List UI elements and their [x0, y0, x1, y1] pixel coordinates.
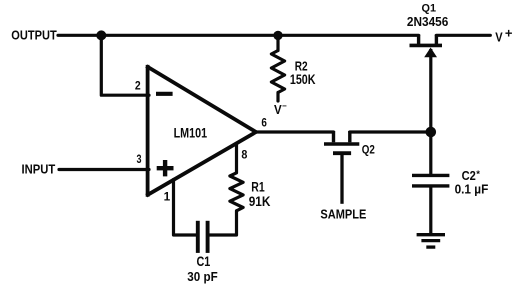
- svg-text:0.1 µF: 0.1 µF: [455, 183, 489, 197]
- resistor R1 zigzag: [230, 173, 243, 211]
- svg-text:3: 3: [137, 152, 142, 166]
- op-amp inverting input minus symbol: [156, 92, 173, 96]
- svg-text:2N3456: 2N3456: [407, 14, 448, 29]
- resistor R2 zigzag: [271, 51, 284, 93]
- wire output feedback down to pin 2: [101, 35, 149, 95]
- svg-text:Q2: Q2: [362, 143, 375, 157]
- svg-text:150K: 150K: [290, 72, 316, 87]
- op-amp non-inverting input plus symbol: [157, 160, 174, 176]
- transistor Q2 MOS-gate symbol: [324, 131, 359, 204]
- transistor Q1 2N3456 JFET symbol: [410, 35, 443, 133]
- svg-text:C1: C1: [197, 254, 211, 269]
- svg-text:1: 1: [164, 189, 171, 203]
- wire node A down to C2: [429, 132, 432, 174]
- svg-text:V: V: [274, 102, 282, 117]
- svg-text:91K: 91K: [249, 194, 271, 209]
- transistor Q1 gate arrowhead: [424, 48, 437, 58]
- svg-text:2: 2: [135, 79, 141, 93]
- wire INPUT lead to pin 3: [59, 168, 149, 171]
- svg-text:30 pF: 30 pF: [187, 269, 217, 284]
- ground symbol: [417, 235, 445, 247]
- svg-text:V: V: [495, 30, 503, 44]
- svg-text:C2: C2: [462, 169, 476, 183]
- wire pin 8 stub to R1: [235, 144, 238, 173]
- wire Q1 drain to V+: [436, 34, 490, 37]
- wire pin 6 output to Q2 source: [254, 130, 334, 133]
- capacitor C2 plates: [412, 175, 449, 186]
- svg-text:R1: R1: [251, 180, 265, 195]
- svg-text:Q1: Q1: [422, 2, 437, 14]
- capacitor C1 plates: [198, 221, 208, 253]
- svg-text:8: 8: [241, 147, 247, 161]
- svg-text:−: −: [282, 102, 287, 111]
- op-amp U1 LM101 triangle: [146, 65, 256, 197]
- node junction dot at OUTPUT: [96, 30, 106, 40]
- wire pin 1 down to C1 left plate: [174, 180, 197, 236]
- wire R1 bottom to C1 right plate: [209, 211, 236, 235]
- svg-text:LM101: LM101: [174, 125, 208, 140]
- wire top rail OUTPUT to Q1 source: [58, 34, 419, 37]
- svg-text:SAMPLE: SAMPLE: [320, 207, 366, 221]
- svg-text:+: +: [505, 26, 513, 41]
- svg-text:*: *: [476, 169, 480, 180]
- svg-text:INPUT: INPUT: [22, 161, 56, 176]
- wire Q2 drain to node A: [350, 130, 431, 133]
- node A junction dot (Q1 gate / Q2 drain / C2): [426, 127, 437, 138]
- svg-text:6: 6: [261, 116, 267, 130]
- node junction dot at R2 / top rail: [273, 31, 282, 40]
- svg-text:OUTPUT: OUTPUT: [11, 28, 56, 43]
- wire C2 to ground: [429, 188, 432, 234]
- wire R2 bottom stub to V-: [276, 93, 279, 102]
- wire R2 top stub: [276, 35, 279, 50]
